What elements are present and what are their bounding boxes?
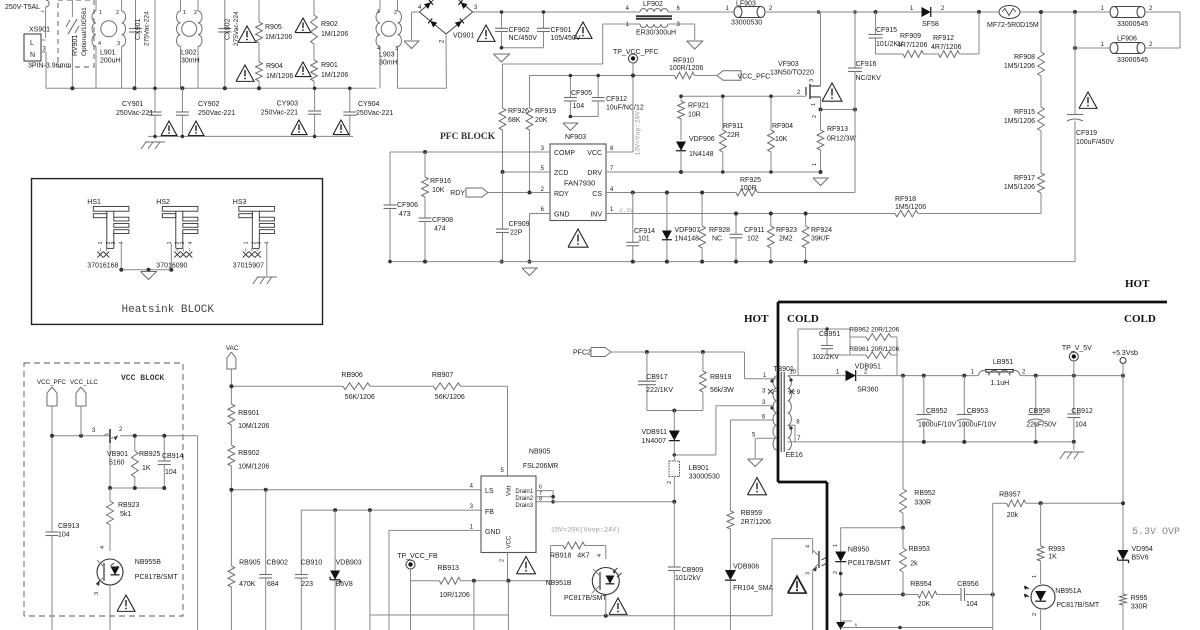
svg-text:330R: 330R — [914, 500, 931, 507]
resistor RB959 2R7/1206 body — [727, 511, 734, 529]
svg-text:3: 3 — [117, 41, 120, 47]
svg-text:RB906: RB906 — [341, 372, 363, 379]
svg-text:330R: 330R — [1131, 604, 1148, 611]
svg-text:8: 8 — [539, 497, 542, 503]
warning triangle CF919 — [1079, 92, 1097, 108]
ground under PFC bus — [522, 268, 537, 276]
capacitor CF919 100uF/450V — [1067, 114, 1083, 116]
resistor RF912 4R7/1206 — [924, 53, 939, 55]
svg-text:Drain2: Drain2 — [515, 496, 533, 502]
svg-text:1: 1 — [811, 103, 817, 106]
svg-text:RB918: RB918 — [550, 553, 572, 560]
svg-text:VCC BLOCK: VCC BLOCK — [121, 374, 164, 383]
svg-text:VDF906: VDF906 — [689, 136, 715, 143]
wire secondary return — [924, 441, 1074, 443]
svg-text:1M5/1206: 1M5/1206 — [1004, 184, 1035, 191]
wire RB954 node line — [841, 594, 903, 596]
wire N bus — [46, 87, 377, 89]
svg-text:HOT: HOT — [1125, 278, 1150, 290]
svg-text:RF924: RF924 — [811, 227, 832, 234]
svg-text:6: 6 — [539, 485, 542, 491]
svg-text:RB919: RB919 — [710, 374, 732, 381]
capacitor CY902 250Vac-221 — [181, 88, 183, 112]
svg-text:CF916: CF916 — [856, 61, 877, 68]
svg-text:1: 1 — [377, 9, 380, 15]
svg-text:4K7: 4K7 — [577, 553, 590, 560]
resistor RF909 4R7/1206 — [876, 53, 904, 55]
wire pin3 link — [674, 454, 716, 456]
svg-text:56K/1206: 56K/1206 — [345, 394, 375, 401]
svg-text:4: 4 — [188, 241, 194, 244]
svg-text:2.5V: 2.5V — [620, 207, 634, 214]
wire VCC node line — [52, 435, 110, 437]
ground chassis HS3 — [266, 244, 268, 276]
wire bus segment to bridge — [398, 87, 447, 89]
svg-text:CF912: CF912 — [606, 96, 627, 103]
resistor RF925 100R — [736, 189, 758, 196]
svg-text:CX901: CX901 — [135, 18, 142, 40]
wire bridge minus to bus — [445, 34, 447, 88]
junction CX902-bus — [223, 86, 227, 90]
svg-text:CY902: CY902 — [198, 101, 220, 108]
wire RDY line — [488, 192, 550, 194]
svg-text:RB923: RB923 — [118, 502, 140, 509]
capacitor CF901 105/450V — [537, 27, 550, 29]
ground under CF902 — [494, 54, 510, 62]
svg-text:37015907: 37015907 — [233, 262, 264, 269]
junction GND-bus — [528, 260, 532, 264]
svg-text:VDB903: VDB903 — [336, 560, 362, 567]
svg-text:223: 223 — [301, 581, 313, 588]
svg-text:COMP: COMP — [554, 150, 575, 157]
wire CF919 column — [1074, 12, 1076, 114]
junction RV901-bus — [70, 86, 74, 90]
svg-text:22uF/50V: 22uF/50V — [1026, 422, 1057, 429]
svg-text:100R/1206: 100R/1206 — [669, 65, 703, 72]
wire COMP line — [390, 151, 550, 153]
svg-text:2: 2 — [394, 10, 397, 16]
resistor RB901 10M/1206 — [228, 404, 235, 425]
svg-text:Drain3: Drain3 — [515, 503, 533, 509]
isolation boundary thick horizontal — [778, 301, 1167, 304]
svg-text:2k: 2k — [910, 561, 918, 568]
svg-text:VDB906: VDB906 — [733, 564, 759, 571]
wire right edge loop — [1179, 12, 1181, 48]
wire VAC column — [230, 369, 232, 404]
svg-text:250Vac-221: 250Vac-221 — [261, 110, 298, 117]
svg-text:RF915: RF915 — [1014, 109, 1035, 116]
warning triangle CF902 — [477, 25, 495, 41]
svg-text:22R: 22R — [727, 132, 740, 139]
resistor RB954 20K — [903, 594, 918, 596]
ground heatsink — [141, 272, 157, 280]
wire DRV line — [606, 171, 821, 173]
resistor RB957 20k — [993, 502, 1007, 504]
svg-text:104: 104 — [165, 469, 177, 476]
resistor RF926 68K — [499, 108, 506, 130]
warning triangle below NF903 — [568, 229, 588, 247]
svg-text:EE16: EE16 — [786, 452, 803, 459]
capacitor CB958 22uF/50V — [1035, 376, 1037, 414]
resistor RB918 4K7 — [551, 545, 563, 547]
svg-text:2R7/1206: 2R7/1206 — [741, 519, 771, 526]
wire bottom secondary line — [841, 627, 993, 629]
junction COMP-RF916 — [423, 150, 427, 154]
svg-text:NB950: NB950 — [848, 547, 870, 554]
svg-text:PC817B/SMT: PC817B/SMT — [564, 595, 608, 602]
wire INV line — [606, 213, 895, 215]
svg-text:4: 4 — [98, 41, 101, 47]
svg-text:RF909: RF909 — [900, 33, 921, 40]
svg-text:RB962 20R/1206: RB962 20R/1206 — [849, 327, 899, 334]
svg-text:VDB951: VDB951 — [855, 364, 881, 371]
wire GND column — [388, 530, 390, 630]
svg-text:TP_VCC_FB: TP_VCC_FB — [397, 553, 438, 560]
svg-text:250Vac-221: 250Vac-221 — [356, 110, 393, 117]
choke L901 200uH — [95, 0, 97, 11]
wire VCC_LLC column — [80, 406, 82, 436]
capacitor CB910 223 — [300, 510, 302, 574]
svg-text:104: 104 — [966, 601, 978, 608]
junction R904-bus — [257, 86, 261, 90]
wire to NB951B emitter — [550, 581, 552, 616]
svg-text:RF923: RF923 — [776, 227, 797, 234]
svg-text:ER30/300uH: ER30/300uH — [636, 30, 676, 37]
svg-text:CB953: CB953 — [967, 408, 989, 415]
svg-text:R902: R902 — [321, 21, 338, 28]
svg-text:RF917: RF917 — [1014, 175, 1035, 182]
warning triangle NB950 — [788, 576, 807, 593]
svg-text:10: 10 — [789, 370, 796, 376]
junction snubber left — [874, 10, 878, 14]
net flag VCC_PFC — [717, 71, 741, 81]
svg-text:VAC: VAC — [226, 345, 239, 352]
svg-text:20K: 20K — [535, 117, 548, 124]
diode VDB951 SR360 — [846, 370, 856, 381]
wire TB901 pin5 ground — [755, 437, 774, 439]
svg-text:Vstr: Vstr — [507, 485, 513, 496]
capacitor CX902 275Vac-224 — [224, 0, 226, 28]
svg-text:COLD: COLD — [787, 313, 819, 325]
junction CY901-bus — [153, 87, 157, 91]
svg-text:1: 1 — [98, 241, 104, 244]
junction RDY-RF919 — [528, 191, 532, 195]
warning triangle VF903 — [822, 83, 842, 101]
svg-text:1.1uH: 1.1uH — [991, 380, 1010, 387]
optocoupler NB950 LED side — [840, 528, 842, 552]
svg-text:1000uF/10V: 1000uF/10V — [958, 422, 996, 429]
capacitor CY904 250Vac-221 — [349, 88, 351, 112]
svg-text:56k/3W: 56k/3W — [710, 387, 734, 394]
svg-text:SR360: SR360 — [857, 387, 879, 394]
capacitor CF902 NC/450V — [495, 27, 508, 29]
svg-text:1M/1206: 1M/1206 — [321, 31, 348, 38]
svg-text:56K/1206: 56K/1206 — [435, 394, 465, 401]
svg-text:RB961 20R/1206: RB961 20R/1206 — [849, 346, 899, 353]
warning triangle NB955B — [117, 595, 135, 611]
svg-text:22P: 22P — [510, 230, 523, 237]
svg-text:RF918: RF918 — [895, 196, 916, 203]
diode VDB911 1N4007 — [673, 411, 675, 432]
svg-text:CB952: CB952 — [926, 408, 948, 415]
warning triangle CY902 — [188, 121, 204, 136]
svg-text:102: 102 — [747, 236, 759, 243]
bottom transistor NB902 partial — [841, 620, 852, 622]
svg-text:473: 473 — [399, 211, 411, 218]
svg-text:PFC BLOCK: PFC BLOCK — [440, 132, 496, 142]
svg-text:RB957: RB957 — [999, 492, 1021, 499]
svg-text:10M/1206: 10M/1206 — [238, 423, 269, 430]
capacitor CF908 474 — [419, 217, 432, 219]
wire VCC branch down — [507, 581, 509, 630]
svg-text:PC817B/SMT: PC817B/SMT — [848, 560, 892, 567]
wire VCC rail y75.5 — [529, 76, 531, 109]
svg-text:NF903: NF903 — [565, 134, 586, 141]
svg-text:NB955B: NB955B — [135, 559, 161, 566]
wire LS line — [231, 489, 481, 491]
svg-text:RF916: RF916 — [430, 178, 451, 185]
svg-text:LB951: LB951 — [993, 359, 1013, 366]
resistor RB919 56k/3W — [702, 352, 704, 371]
svg-text:CF906: CF906 — [397, 202, 418, 209]
capacitor CY901 250Vac-221 — [154, 110, 156, 112]
svg-text:RB907: RB907 — [432, 372, 454, 379]
svg-text:1: 1 — [833, 544, 839, 547]
svg-text:3: 3 — [395, 46, 398, 52]
svg-text:2M2: 2M2 — [779, 236, 793, 243]
svg-text:13V<Vop:20V: 13V<Vop:20V — [635, 110, 643, 156]
wire pin10 node — [798, 375, 845, 377]
junction LB901-drain — [672, 500, 676, 504]
svg-text:RB952: RB952 — [914, 490, 936, 497]
svg-text:684: 684 — [267, 581, 279, 588]
svg-text:470K: 470K — [239, 581, 256, 588]
svg-text:R995: R995 — [1131, 595, 1148, 602]
svg-text:1M/1206: 1M/1206 — [321, 72, 348, 79]
svg-text:1: 1 — [99, 10, 102, 16]
drain pins — [536, 490, 553, 492]
svg-text:RV901: RV901 — [72, 35, 79, 56]
svg-text:+5.3Vsb: +5.3Vsb — [1112, 350, 1138, 357]
svg-text:200uH: 200uH — [100, 58, 121, 65]
capacitor CB909 101/2kV — [673, 502, 675, 567]
capacitor CB951 102/2KV — [826, 329, 828, 345]
svg-text:10R/1206: 10R/1206 — [439, 592, 469, 599]
photodiode arrows NB950 — [822, 558, 827, 561]
capacitor CB914 104 — [163, 436, 165, 461]
svg-text:CF902: CF902 — [509, 27, 530, 34]
svg-text:HS2: HS2 — [156, 199, 170, 206]
capacitor CF915 101/2KV — [875, 12, 877, 34]
diode VDF907 1N4148 — [666, 193, 668, 232]
heatsink block box — [32, 179, 323, 325]
svg-text:ZCD: ZCD — [554, 170, 568, 177]
svg-text:2: 2 — [812, 115, 818, 118]
svg-text:VCC_PFC: VCC_PFC — [37, 379, 66, 386]
svg-text:COLD: COLD — [1124, 313, 1156, 325]
resistor RF919 20K — [526, 108, 533, 130]
svg-text:FSL206MR: FSL206MR — [523, 463, 558, 470]
choke L902 30mH — [180, 0, 182, 11]
svg-text:1: 1 — [167, 241, 173, 244]
warning triangle CY901 — [161, 121, 177, 136]
warning triangle CF901 — [574, 22, 592, 38]
capacitor CF906 473 — [384, 204, 397, 206]
diode VDB906 FR104_SMA — [729, 529, 731, 571]
heatsink ground wire — [121, 269, 171, 271]
svg-text:RDY: RDY — [554, 191, 569, 198]
capacitor CB953 1000uF/10V — [963, 376, 965, 414]
svg-text:2: 2 — [833, 571, 839, 574]
svg-text:5160: 5160 — [109, 460, 125, 467]
wire PFC2 line — [611, 351, 745, 353]
junction LF906 tap — [1073, 10, 1077, 14]
capacitor CF912 10uF/NC/12 — [597, 76, 599, 98]
ground chassis under CY901 — [148, 135, 353, 137]
svg-text:1N4148: 1N4148 — [675, 236, 700, 243]
svg-text:4: 4 — [119, 241, 125, 244]
transformer TB901 secondary — [788, 376, 792, 450]
svg-text:N: N — [30, 52, 35, 59]
pin2 VCC down — [507, 553, 509, 581]
capacitor CB952 1000uF/10V — [923, 376, 925, 414]
wire CF914top — [632, 193, 634, 214]
svg-text:1M/1206: 1M/1206 — [265, 34, 292, 41]
svg-text:RF911: RF911 — [723, 123, 744, 130]
svg-text:NB905: NB905 — [529, 449, 551, 456]
svg-text:4: 4 — [597, 554, 603, 557]
heatsink HS1 pin4 wire — [120, 244, 122, 270]
TB901 pin stubs — [774, 378, 777, 380]
warning triangle near R904 — [236, 65, 254, 81]
junction ZCD-RF926 — [501, 170, 505, 174]
svg-text:CF909: CF909 — [509, 221, 530, 228]
svg-text:CY901: CY901 — [122, 101, 144, 108]
svg-text:CB912: CB912 — [1071, 408, 1093, 415]
net flag RDY — [466, 188, 488, 197]
junction CY902-gnd — [181, 135, 185, 139]
svg-text:1M5/1206: 1M5/1206 — [1004, 118, 1035, 125]
ground under bridge pin4 — [412, 11, 420, 13]
svg-text:104: 104 — [1075, 422, 1087, 429]
svg-text:CF905: CF905 — [571, 90, 592, 97]
svg-text:10uF/NC/12: 10uF/NC/12 — [606, 105, 644, 112]
svg-text:RF928: RF928 — [709, 227, 730, 234]
resistor RB907 56K/1206 — [433, 383, 460, 390]
wire VB901 emitter node — [110, 487, 164, 489]
svg-text:33000530: 33000530 — [731, 20, 762, 27]
IC NB905 FSL206MR — [481, 476, 536, 553]
warning triangle near R905 — [238, 26, 256, 42]
wire snubber bottom — [647, 410, 703, 412]
svg-text:VCC_PFC: VCC_PFC — [738, 74, 771, 81]
svg-text:1M/1206: 1M/1206 — [266, 73, 293, 80]
svg-text:37016168: 37016168 — [87, 262, 118, 269]
svg-text:HOT: HOT — [744, 313, 769, 325]
svg-text:275Vac-224: 275Vac-224 — [144, 11, 151, 46]
warning triangle near R902 — [295, 18, 311, 33]
svg-text:250Vac-221: 250Vac-221 — [116, 110, 153, 117]
VCC block dashed box — [24, 363, 183, 616]
wire vertical x155 — [154, 0, 156, 110]
svg-text:NC/450V: NC/450V — [509, 35, 538, 42]
resistor R902 1M/1206 — [313, 0, 315, 15]
svg-text:13N50/TO220: 13N50/TO220 — [770, 70, 814, 77]
resistor RB925 1K — [134, 436, 136, 451]
svg-text:NC: NC — [712, 236, 722, 243]
bridge rectifier VD901 — [419, 12, 446, 34]
svg-text:INV: INV — [590, 212, 602, 219]
svg-text:33000530: 33000530 — [689, 474, 720, 481]
svg-text:B5V6: B5V6 — [1132, 555, 1149, 562]
resistor RF923 2M2 — [770, 214, 772, 227]
svg-text:MF72-5R0D15M: MF72-5R0D15M — [987, 22, 1039, 29]
TB901 winding dots — [770, 379, 773, 382]
resistor RB906 56K/1206 — [343, 383, 370, 390]
svg-text:VCC: VCC — [587, 150, 602, 157]
wire GND pin line — [389, 529, 481, 531]
isolation boundary thick vertical — [777, 302, 780, 482]
wire RB906 line — [231, 385, 343, 387]
svg-text:VCC: VCC — [507, 535, 513, 548]
svg-text:5.3V OVP: 5.3V OVP — [1132, 527, 1180, 538]
fuse F901 250V-T5AL — [46, 0, 50, 7]
svg-text:Heatsink BLOCK: Heatsink BLOCK — [122, 304, 215, 316]
svg-text:CB917: CB917 — [646, 374, 668, 381]
svg-text:1: 1 — [1032, 575, 1038, 578]
svg-text:RB913: RB913 — [438, 565, 460, 572]
heatsink HS2 pin1 wire — [170, 244, 172, 270]
warning triangle CY904 — [333, 120, 349, 135]
thermistor MF72-5R0D15M RT901 — [932, 11, 999, 13]
svg-text:RB905: RB905 — [239, 560, 261, 567]
wire FB line — [301, 509, 481, 511]
svg-text:RB953: RB953 — [909, 546, 931, 553]
wire 5V rail right junctions — [1034, 374, 1038, 378]
ground TB901 pin5 — [748, 459, 763, 467]
svg-text:RB959: RB959 — [741, 510, 763, 517]
svg-text:XS901: XS901 — [29, 27, 50, 34]
svg-text:CF919: CF919 — [1076, 130, 1097, 137]
gate wire — [681, 95, 806, 97]
ferrite bead LF905 33000545 — [1114, 7, 1141, 18]
junction CY901-gnd — [153, 135, 157, 139]
svg-text:33000545: 33000545 — [1117, 57, 1148, 64]
svg-text:3: 3 — [180, 241, 186, 244]
svg-text:VD954: VD954 — [1132, 546, 1154, 553]
warning triangle VDB906 — [788, 577, 806, 593]
svg-text:4R7/1206: 4R7/1206 — [931, 44, 961, 51]
svg-text:39K/F: 39K/F — [811, 236, 830, 243]
resistor RF928 NC — [701, 193, 703, 227]
svg-text:101: 101 — [638, 236, 650, 243]
capacitor CF914 101 — [632, 214, 634, 243]
wire top bus right — [765, 11, 924, 13]
junction snubber right — [977, 10, 981, 14]
svg-text:1M5/1206: 1M5/1206 — [1004, 63, 1035, 70]
svg-text:VDB911: VDB911 — [641, 429, 667, 436]
svg-text:CB913: CB913 — [58, 523, 80, 530]
resistor RB962 20R/1206 — [849, 329, 851, 355]
svg-text:0R12/3W: 0R12/3W — [827, 136, 857, 143]
resistor R995 330R — [1120, 594, 1127, 605]
wire CF901 CF902 gnd — [502, 47, 544, 49]
svg-text:RF919: RF919 — [535, 108, 556, 115]
ground LF902 pin3 — [694, 24, 696, 40]
svg-text:GND: GND — [485, 529, 501, 536]
svg-text:250Vac-221: 250Vac-221 — [198, 110, 235, 117]
svg-text:L: L — [30, 40, 34, 47]
